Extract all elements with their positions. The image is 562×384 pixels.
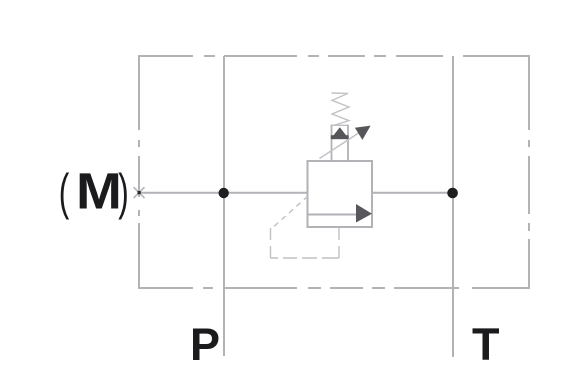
flow path line inside valve xyxy=(308,214,358,216)
relief valve body U1 (main square) xyxy=(308,161,373,227)
flow arrowhead xyxy=(356,204,372,223)
enclosure border (dash-dot subplate boundary) xyxy=(138,55,530,289)
port M plug marker (x) xyxy=(134,187,145,198)
poppet housing vertical lines xyxy=(331,125,333,162)
svg-text:M: M xyxy=(76,163,122,220)
valve seat bar xyxy=(331,135,349,139)
node junction dot at T xyxy=(447,188,458,199)
spring xyxy=(332,93,350,126)
adjustment arrow shaft (diagonal) xyxy=(320,130,365,159)
svg-text:P: P xyxy=(190,319,220,370)
pilot line vertical down xyxy=(270,228,272,258)
poppet housing top bar xyxy=(331,124,349,126)
pilot line horizontal xyxy=(271,257,340,259)
pilot line vertical up to valve bottom xyxy=(338,227,340,258)
node junction dot at P xyxy=(219,188,229,198)
svg-text:(: ( xyxy=(59,164,70,220)
poppet (filled triangle) xyxy=(333,127,346,136)
svg-text:): ) xyxy=(118,164,128,220)
wire P line (vertical) xyxy=(223,56,225,356)
adjustment arrowhead xyxy=(355,126,371,140)
wire T line (vertical) xyxy=(452,56,454,357)
wire M line left segment xyxy=(139,192,308,194)
svg-text:T: T xyxy=(472,319,500,370)
pilot line (dashed): diagonal from valve inlet xyxy=(271,196,309,230)
wire valve outlet to T xyxy=(372,192,453,194)
